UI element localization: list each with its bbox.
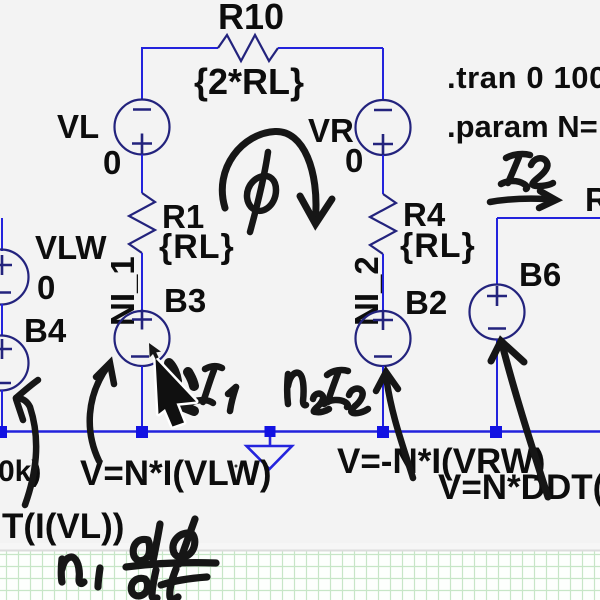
svg-text:RW: RW: [585, 181, 600, 218]
resistor R10: [218, 35, 278, 61]
annotation flux arc arrow: [222, 131, 332, 224]
svg-text:B2: B2: [405, 284, 447, 321]
svg-text:0: 0: [37, 269, 55, 306]
node junction ground: [265, 426, 276, 437]
svg-text:B6: B6: [519, 256, 561, 293]
resistor R4: [370, 194, 396, 254]
wire corner down to B6: [496, 218, 498, 285]
wire VL to R1: [141, 155, 143, 194]
wire top-right vertical to VR: [382, 48, 384, 100]
svg-text:0: 0: [345, 142, 363, 179]
annotation n1 fragments near cursor: [169, 363, 194, 411]
wire R1 to B3: [141, 253, 143, 311]
wire B4 to bus: [1, 390, 3, 428]
node junction B6: [490, 426, 502, 438]
bsource B6: [470, 285, 525, 340]
resistor R1: [129, 193, 155, 253]
voltage source VR: [356, 100, 411, 155]
svg-text:{RL}: {RL}: [159, 228, 235, 266]
wire top-left vertical from corner to VL: [141, 48, 143, 100]
annotation I2 with arrow (top right): [490, 154, 556, 208]
small ink dot: [235, 465, 238, 468]
voltage source VL: [115, 100, 170, 155]
mouse cursor: [149, 343, 196, 427]
wire B2 to bus: [382, 366, 384, 428]
wire VR to R4: [382, 155, 384, 194]
annotation arrow to B6: [491, 341, 548, 497]
notebook paper strip at bottom: [0, 543, 600, 600]
svg-text:VL: VL: [57, 108, 99, 145]
svg-text:V=N*DDT(I(: V=N*DDT(I(: [438, 468, 600, 507]
wire left edge down to VLW: [1, 218, 3, 251]
svg-text:{2*RL}: {2*RL}: [194, 61, 304, 102]
annotation arrow to B2: [376, 372, 413, 478]
bsource B4: [0, 336, 29, 391]
annotation phi symbol: [247, 152, 276, 232]
wire R4 to B2: [382, 254, 384, 311]
bus wire (bottom horizontal): [0, 430, 600, 433]
annotation n1 dphi/dt (bottom): [61, 519, 216, 599]
svg-text:R10: R10: [218, 0, 284, 37]
wire top horizontal left segment: [141, 47, 218, 49]
svg-text:.tran 0 100: .tran 0 100: [447, 60, 600, 95]
svg-text:NI_1: NI_1: [104, 256, 141, 326]
node junction B3: [136, 426, 148, 438]
annotation arrow to B4: [16, 380, 38, 505]
voltage source VLW: [0, 250, 29, 305]
wire VLW to B4: [1, 304, 3, 336]
ground symbol: [247, 437, 293, 469]
svg-text:{RL}: {RL}: [400, 227, 476, 265]
annotation arrow to B3: [90, 363, 114, 461]
wire top horizontal right segment: [278, 47, 383, 49]
svg-text:T(I(VL)): T(I(VL)): [2, 507, 124, 546]
annotation I1: [189, 366, 236, 411]
svg-text:VLW: VLW: [35, 229, 107, 266]
svg-text:B3: B3: [164, 282, 206, 319]
svg-text:V=N*I(VLW): V=N*I(VLW): [80, 454, 272, 493]
node junction B2: [377, 426, 389, 438]
bsource B3: [115, 310, 170, 367]
wire B6 to bus: [496, 340, 498, 429]
bsource B2: [356, 310, 411, 366]
svg-text:B4: B4: [24, 312, 67, 349]
wire B3 to bus: [141, 366, 143, 428]
wire B6 top horizontal to right edge: [497, 217, 600, 219]
node junction left edge: [0, 426, 7, 438]
annotation n2I2: [287, 370, 368, 413]
svg-text:0: 0: [103, 144, 121, 181]
svg-text:.param N=: .param N=: [447, 109, 598, 144]
